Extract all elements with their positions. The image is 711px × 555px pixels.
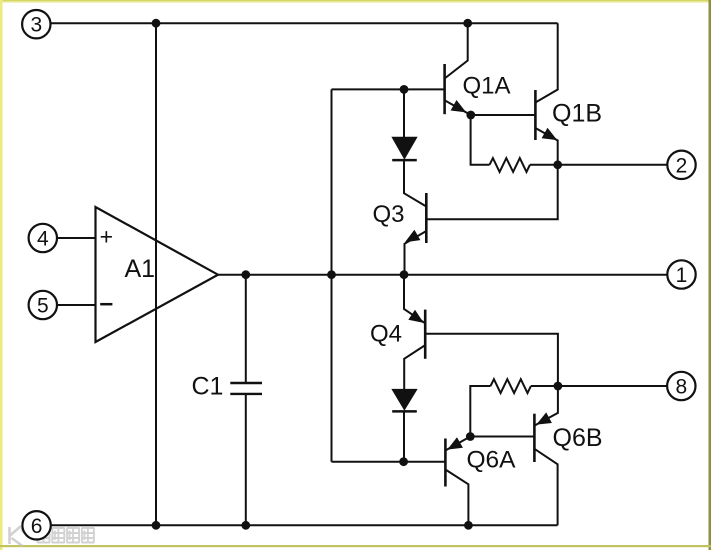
svg-text:5: 5 bbox=[37, 295, 49, 318]
junction node 13 bbox=[553, 160, 562, 169]
svg-text:Q3: Q3 bbox=[373, 201, 405, 228]
transistor Q4 emitter (from pin1 node) bbox=[404, 275, 425, 324]
resistor R-bottom left lead bbox=[470, 386, 490, 437]
wire feedback loop left vertical x=331.5 bbox=[331, 89, 333, 461]
junction node 3 bbox=[152, 521, 161, 530]
junction node 4 bbox=[241, 521, 250, 530]
transistor Q3 base wire to pin2 node bbox=[426, 165, 557, 219]
resistor R-top right lead bbox=[530, 164, 558, 166]
watermark text 亿数跨境 bbox=[38, 528, 94, 543]
junction node 7 bbox=[327, 270, 336, 279]
wire C1 branch upper bbox=[245, 275, 247, 382]
transistor Q3 collector (from diode) bbox=[404, 160, 426, 206]
svg-text:Q1A: Q1A bbox=[463, 73, 511, 100]
junction node 11 bbox=[466, 111, 475, 120]
junction node 14 bbox=[554, 382, 563, 391]
pin 5 terminal bbox=[29, 291, 57, 319]
svg-text:Q1B: Q1B bbox=[552, 100, 602, 128]
svg-text:+: + bbox=[100, 224, 113, 250]
transistor Q4 base wire to pin8 node bbox=[425, 334, 558, 386]
svg-text:2: 2 bbox=[676, 154, 688, 177]
resistor R-top zigzag bbox=[490, 158, 530, 172]
wire loop top horizontal to Q1A base bbox=[332, 88, 445, 90]
junction node 6 bbox=[241, 270, 250, 279]
diode D2 triangle bbox=[392, 389, 417, 409]
svg-text:3: 3 bbox=[30, 14, 42, 37]
diode D2 cathode wire bbox=[403, 411, 405, 461]
pin 6 terminal bbox=[22, 511, 50, 539]
pin 4 terminal bbox=[29, 224, 57, 252]
junction node 12 bbox=[466, 432, 475, 441]
transistor Q1A collector bbox=[445, 23, 468, 78]
wire vertical supply through op-amp x=156 bbox=[155, 23, 157, 525]
svg-text:4: 4 bbox=[37, 228, 49, 251]
svg-text:6: 6 bbox=[31, 515, 43, 538]
wire pin 8 stub bbox=[558, 385, 667, 387]
transistor Q3 emitter bbox=[405, 231, 427, 275]
junction node 5 bbox=[464, 521, 473, 530]
svg-text:Q6B: Q6B bbox=[553, 424, 603, 452]
svg-text:1: 1 bbox=[676, 264, 688, 287]
svg-text:C1: C1 bbox=[192, 373, 224, 401]
transistor Q6A collector bbox=[445, 470, 468, 526]
wire pin 2 stub bbox=[558, 164, 668, 166]
wire pin 5 stub bbox=[57, 304, 95, 306]
svg-text:Q4: Q4 bbox=[370, 321, 402, 348]
transistor Q1B base bar bbox=[534, 90, 537, 140]
junction node 8 bbox=[400, 270, 409, 279]
transistor Q6B base wire bbox=[470, 436, 534, 438]
pin 8 terminal bbox=[667, 372, 695, 400]
transistor Q1A emitter bbox=[445, 100, 471, 115]
junction node 1 bbox=[152, 19, 161, 28]
watermark logo bbox=[10, 526, 29, 546]
diode D2 cathode bar bbox=[392, 410, 417, 413]
wire op-amp output to pin 1 bbox=[218, 274, 668, 276]
svg-text:Q6A: Q6A bbox=[467, 447, 517, 474]
diode D1 cathode bar bbox=[392, 159, 417, 162]
pin 3 terminal bbox=[22, 10, 50, 38]
transistor Q4 collector (to diode) bbox=[404, 345, 425, 390]
wire C1 branch lower bbox=[245, 395, 247, 526]
junction node 10 bbox=[399, 457, 408, 466]
transistor Q4 base bar bbox=[424, 310, 427, 359]
transistor Q6B base bar bbox=[533, 414, 536, 462]
transistor Q6A base bar bbox=[444, 439, 447, 487]
svg-text:8: 8 bbox=[675, 376, 687, 399]
transistor Q1A base bar bbox=[443, 64, 446, 114]
capacitor C1 bbox=[230, 382, 262, 384]
resistor R-bottom right lead bbox=[531, 385, 558, 387]
junction node 2 bbox=[463, 19, 472, 28]
junction node 9 bbox=[400, 85, 409, 94]
svg-text:A1: A1 bbox=[125, 255, 156, 283]
diode D1 anode wire bbox=[403, 89, 405, 137]
transistor Q6B collector bbox=[534, 449, 557, 526]
wire pin 4 stub bbox=[57, 237, 95, 239]
wire top rail pin3 to Q1B collector bbox=[51, 22, 558, 24]
pin 1 terminal bbox=[667, 260, 695, 288]
pin 2 terminal bbox=[667, 151, 695, 179]
diode D1 triangle bbox=[392, 137, 417, 159]
transistor Q6A emitter (from node) bbox=[445, 437, 470, 451]
transistor Q1B collector bbox=[535, 23, 557, 102]
wire loop bottom horizontal / Q6A base bbox=[332, 461, 446, 463]
transistor Q1B base wire bbox=[471, 114, 536, 116]
transistor Q6B emitter (from pin8 node) bbox=[534, 386, 558, 426]
resistor R-bottom zigzag bbox=[491, 379, 531, 393]
resistor R-top left lead bbox=[471, 115, 490, 165]
transistor Q3 base bar bbox=[425, 193, 428, 243]
wire bottom rail pin6 to Q6B collector bbox=[51, 524, 558, 526]
op-amp A1 bbox=[96, 207, 219, 342]
transistor Q1B emitter bbox=[535, 128, 557, 165]
